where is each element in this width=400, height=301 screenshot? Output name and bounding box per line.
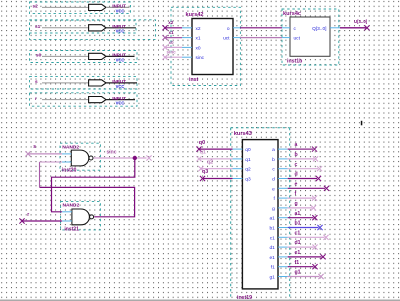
input pin s2 INPUT label — [112, 4, 126, 9]
input pin s selection box — [30, 77, 138, 89]
net label b1 — [295, 221, 301, 227]
svg-text:q3: q3 — [202, 169, 208, 175]
input pin s1 selection box — [30, 20, 137, 33]
svg-text:inst: inst — [189, 77, 198, 83]
svg-text:c1: c1 — [270, 235, 275, 241]
wire lead of input pin s — [42, 82, 89, 84]
svg-text:g: g — [272, 207, 275, 212]
pin g stub of kurs43 — [278, 207, 288, 209]
wire tail of input pin s0 — [106, 55, 135, 57]
gate NAND2 inst21 selection box — [61, 201, 101, 230]
pin Q stub of kurs4c — [330, 27, 340, 29]
pin x1 label of kurs42 — [196, 36, 201, 42]
net label q2 — [207, 159, 213, 165]
svg-text:x1: x1 — [169, 30, 175, 35]
pin d label of kurs43 — [272, 177, 275, 183]
svg-text:d1: d1 — [295, 240, 301, 246]
pin x2 stub of kurs42 — [182, 27, 192, 29]
input pin s0 INPUT label — [112, 53, 126, 58]
pin f1 label of kurs43 — [271, 265, 275, 271]
pin sinc stub of kurs42 — [182, 56, 192, 58]
input pin s0 VCC label — [116, 57, 125, 62]
wire r into inst21 — [22, 220, 62, 222]
svg-text:INPUT: INPUT — [112, 96, 126, 101]
input pin s name label — [35, 80, 38, 85]
wire f from kurs43 — [288, 197, 313, 199]
pin x0 stub of kurs42 — [182, 46, 192, 48]
svg-text:kurs4c: kurs4c — [283, 11, 301, 17]
gate NAND2 inst20 symbol — [71, 150, 93, 166]
wire a from kurs43 — [288, 148, 313, 150]
input pin s2 symbol — [89, 4, 106, 10]
svg-text:q1: q1 — [200, 150, 206, 156]
svg-text:x0: x0 — [169, 40, 175, 45]
svg-text:INPUT: INPUT — [112, 79, 126, 84]
svg-text:VCC: VCC — [116, 101, 125, 106]
input pin r INPUT label — [112, 96, 126, 101]
svg-text:x2: x2 — [196, 26, 201, 32]
svg-text:f: f — [295, 191, 297, 197]
svg-text:x1: x1 — [196, 36, 201, 42]
instance label inst20 — [62, 167, 77, 173]
pin b1 label of kurs43 — [269, 226, 275, 232]
svg-text:s: s — [35, 80, 38, 85]
node X terminal of wire s — [25, 151, 30, 156]
svg-text:e: e — [272, 187, 275, 192]
node X terminal of wire x0 — [162, 45, 167, 50]
pin c label of kurs43 — [272, 168, 275, 173]
svg-text:inst21: inst21 — [64, 227, 79, 233]
node X terminal of wire a1 — [312, 215, 317, 220]
pin q2 stub of kurs43 — [233, 168, 243, 170]
svg-text:r: r — [27, 212, 29, 218]
svg-text:c1: c1 — [295, 230, 301, 236]
net label q0 — [199, 140, 205, 146]
svg-text:f1: f1 — [295, 260, 300, 266]
component kurs43 U3 selection box — [231, 128, 290, 301]
node X terminal of wire q1 — [196, 156, 201, 161]
svg-text:VCC: VCC — [116, 57, 125, 62]
svg-text:g1: g1 — [269, 275, 275, 281]
pin a1 label of kurs43 — [269, 216, 275, 222]
node X terminal of wire f1 — [312, 264, 317, 269]
svg-text:inst1b: inst1b — [287, 58, 302, 64]
svg-text:d1: d1 — [269, 245, 275, 251]
pin x2 label of kurs42 — [196, 26, 201, 32]
node X terminal of wire q0 — [196, 147, 201, 152]
pin b1 stub of kurs43 — [278, 227, 288, 229]
pin g1 label of kurs43 — [269, 275, 275, 281]
pin e1 stub of kurs43 — [278, 256, 288, 258]
net label a — [295, 142, 298, 148]
pin a label of kurs43 — [272, 148, 275, 153]
net label f1 — [295, 260, 300, 266]
pin e label of kurs43 — [272, 187, 275, 192]
svg-text:s: s — [33, 144, 36, 150]
wire d from kurs43 — [288, 178, 317, 180]
wire feedback Q to inst21 input1 — [52, 158, 135, 212]
pin c1 label of kurs43 — [270, 235, 275, 241]
pin g label of kurs43 — [272, 207, 275, 212]
pin c stub of kurs4c — [282, 27, 290, 29]
instance label inst1b of kurs4c — [287, 58, 302, 64]
svg-text:VCC: VCC — [116, 8, 125, 13]
pin f stub of kurs43 — [278, 197, 288, 199]
net selection box around s1 — [30, 20, 156, 40]
wire a1 from kurs43 — [288, 217, 314, 219]
svg-text:q0: q0 — [199, 140, 205, 146]
instance label inst19 — [237, 295, 252, 301]
wire b1 from kurs43 — [288, 227, 319, 229]
wire tail of input pin r — [106, 99, 135, 101]
component kurs4c U2 body — [290, 17, 330, 56]
node X terminal of wire e1 — [320, 254, 325, 259]
svg-text:U[3..0]: U[3..0] — [354, 19, 368, 24]
svg-text:a1: a1 — [269, 216, 275, 222]
svg-text:NAND2: NAND2 — [62, 144, 79, 150]
pin sinc label of kurs42 — [196, 55, 205, 61]
pin o label of kurs42 — [227, 27, 230, 32]
svg-text:d: d — [272, 177, 275, 183]
svg-text:q0: q0 — [245, 147, 251, 153]
window border bottom — [0, 300, 400, 301]
svg-text:e1: e1 — [295, 250, 301, 256]
node X terminal of wire b1 — [317, 225, 322, 230]
pin f1 stub of kurs43 — [278, 266, 288, 268]
wire sinc into kurs42 — [165, 56, 182, 58]
pin q0 label of kurs43 — [245, 147, 251, 153]
wire e from kurs43 — [288, 187, 325, 189]
svg-text:e1: e1 — [269, 255, 275, 261]
wire s into inst20 — [28, 153, 62, 155]
wire b from kurs43 — [288, 158, 314, 160]
pin stub input1 of inst20 — [62, 153, 71, 155]
pin q1 stub of kurs43 — [233, 158, 243, 160]
node X terminal of wire x2 — [162, 25, 167, 30]
svg-text:sinc: sinc — [196, 55, 205, 61]
svg-text:b: b — [272, 157, 275, 163]
pin uct label of kurs42 — [223, 36, 230, 42]
svg-text:uct: uct — [294, 36, 301, 42]
input pin s2 VCC label — [116, 8, 125, 13]
svg-text:INPUT: INPUT — [112, 24, 126, 29]
component kurs43 U3 title — [234, 131, 252, 137]
gate NAND2 inst20 selection box — [60, 143, 100, 170]
pin q1 label of kurs43 — [245, 157, 251, 163]
node X terminal of wire q2 — [198, 166, 203, 171]
svg-text:x0: x0 — [196, 45, 201, 51]
node text cursor tick — [361, 121, 363, 126]
svg-text:s0: s0 — [36, 53, 42, 59]
wire q2 into kurs43 — [201, 168, 233, 170]
svg-text:s2: s2 — [33, 4, 39, 10]
pin d stub of kurs43 — [278, 178, 288, 180]
pin a1 stub of kurs43 — [278, 217, 288, 219]
pin q3 label of kurs43 — [245, 177, 251, 183]
svg-text:q2: q2 — [245, 167, 251, 173]
pin c1 stub of kurs43 — [278, 236, 288, 238]
svg-text:e: e — [295, 181, 298, 187]
wire c1 from kurs43 — [288, 236, 325, 238]
input pin s1 name label — [35, 24, 41, 30]
pin c label of kurs4c — [294, 27, 297, 32]
input pin r selection box — [30, 93, 138, 106]
net label f — [295, 191, 297, 197]
node X terminal of wire c1 — [323, 235, 328, 240]
net label sinc — [107, 149, 117, 155]
svg-text:q3: q3 — [245, 177, 251, 183]
input pin s1 VCC label — [116, 29, 125, 34]
wire x0 into kurs42 — [165, 46, 182, 48]
pin g1 stub of kurs43 — [278, 276, 288, 278]
net label x1 — [169, 30, 175, 35]
svg-text:Q[3..0]: Q[3..0] — [312, 26, 326, 32]
svg-text:a: a — [272, 148, 275, 153]
wire uct (kurs42 to kurs4c) — [240, 37, 282, 39]
wire x2 into kurs42 — [165, 27, 182, 29]
wire lead of input pin s1 — [42, 27, 89, 29]
node X terminal of wire q3 — [200, 176, 205, 181]
node X terminal of wire sinc — [162, 55, 167, 60]
svg-text:INPUT: INPUT — [112, 4, 126, 9]
svg-text:q2: q2 — [207, 159, 213, 165]
node X terminal of wire d1 — [312, 245, 317, 250]
wire tail of input pin s — [106, 82, 137, 84]
svg-text:f1: f1 — [271, 265, 275, 271]
component kurs43 U3 body — [242, 140, 278, 289]
wire g1 from kurs43 — [288, 276, 320, 278]
pin q0 stub of kurs43 — [233, 148, 243, 150]
wire o (kurs42 to kurs4c) — [240, 27, 282, 29]
pin d1 stub of kurs43 — [278, 246, 288, 248]
pin stub input1 of inst21 — [62, 211, 72, 213]
node X terminal of wire a — [312, 147, 317, 152]
net label c1 — [295, 230, 301, 236]
net label e — [295, 181, 298, 187]
svg-text:a1: a1 — [295, 211, 301, 217]
pin stub input2 of inst20 — [62, 161, 71, 163]
gate NAND2 inst21 symbol — [72, 209, 94, 225]
input pin s2 selection box — [30, 2, 131, 14]
component kurs42 U1 title — [186, 12, 204, 18]
svg-text:sinc: sinc — [107, 149, 117, 155]
svg-text:x2: x2 — [168, 20, 174, 25]
wire tail of input pin s2 — [106, 6, 130, 8]
svg-text:q1: q1 — [245, 157, 251, 163]
input pin s0 selection box — [30, 51, 138, 63]
svg-text:c: c — [295, 162, 298, 168]
pin a stub of kurs43 — [278, 148, 288, 150]
net label U[3..0] — [354, 19, 368, 24]
input pin s0 name label — [36, 53, 42, 59]
node X terminal of wire g — [311, 205, 316, 210]
net label b — [295, 152, 298, 158]
pin f label of kurs43 — [273, 196, 275, 202]
net label e1 — [295, 250, 301, 256]
node junction on sinc — [133, 156, 137, 160]
pin x1 stub of kurs42 — [182, 37, 192, 39]
net label x2 — [168, 20, 174, 25]
wire g from kurs43 — [288, 207, 312, 209]
wire f1 from kurs43 — [288, 266, 314, 268]
input pin r VCC label — [116, 101, 125, 106]
svg-text:o: o — [227, 27, 230, 32]
net label d1 — [295, 240, 301, 246]
instance label inst21 — [64, 227, 79, 233]
pin b label of kurs43 — [272, 157, 275, 163]
node X terminal of wire d — [316, 176, 321, 181]
pin c stub of kurs43 — [278, 168, 288, 170]
net label d — [295, 172, 298, 178]
node X terminal of wire sinc — [146, 155, 151, 160]
gate NAND2 inst21 type label — [63, 202, 80, 208]
svg-text:VCC: VCC — [116, 29, 125, 34]
pin q3 stub of kurs43 — [233, 178, 243, 180]
wire U[3..0] output — [340, 27, 366, 29]
svg-text:g1: g1 — [295, 270, 301, 276]
input pin r name label — [35, 96, 37, 102]
node X terminal of wire r — [19, 218, 24, 223]
input pin s0 symbol — [89, 53, 106, 59]
pin Q[3..0] label of kurs4c — [312, 26, 326, 32]
input pin s1 INPUT label — [112, 24, 126, 29]
svg-text:sinc: sinc — [167, 50, 177, 55]
wire q1 into kurs43 — [199, 158, 233, 160]
svg-text:s1: s1 — [35, 24, 41, 30]
net label a1 — [295, 211, 301, 217]
net label s — [33, 144, 36, 150]
svg-text:uct: uct — [223, 36, 230, 42]
net label g — [295, 201, 298, 207]
pin e stub of kurs43 — [278, 187, 288, 189]
wire e1 from kurs43 — [288, 256, 322, 258]
net label q1 — [200, 150, 206, 156]
net label r — [27, 212, 29, 218]
svg-text:r: r — [35, 96, 37, 102]
instance label inst of kurs42 — [189, 77, 198, 83]
pin e1 label of kurs43 — [269, 255, 275, 261]
node X terminal of wire U[3..0] — [364, 25, 369, 30]
pin q2 label of kurs43 — [245, 167, 251, 173]
svg-text:INPUT: INPUT — [112, 53, 126, 58]
svg-text:a: a — [295, 142, 298, 148]
net label sinc — [167, 50, 177, 55]
svg-text:VCC: VCC — [116, 84, 125, 89]
component kurs42 U1 selection box — [171, 7, 240, 85]
svg-text:d: d — [295, 172, 298, 178]
wire lead of input pin r — [42, 99, 89, 101]
net label g1 — [295, 270, 301, 276]
component kurs4c U2 selection box — [282, 9, 339, 65]
component kurs42 U1 body — [192, 19, 233, 75]
svg-text:kurs43: kurs43 — [234, 131, 252, 137]
wire q3 into kurs43 — [203, 178, 233, 180]
net label q3 — [202, 169, 208, 175]
wire tail of input pin s1 — [106, 27, 136, 29]
wire d1 from kurs43 — [288, 246, 314, 248]
pin b stub of kurs43 — [278, 158, 288, 160]
wire lead of input pin s0 — [42, 55, 89, 57]
pin x0 label of kurs42 — [196, 45, 201, 51]
net label x0 — [169, 40, 175, 45]
pin stub input2 of inst21 — [62, 220, 72, 222]
pin d1 label of kurs43 — [269, 245, 275, 251]
pin uct stub of kurs42 — [233, 37, 240, 39]
svg-text:b1: b1 — [295, 221, 301, 227]
input pin s INPUT label — [112, 79, 126, 84]
wire q0 into kurs43 — [199, 148, 233, 150]
wire lead of input pin s2 — [42, 6, 89, 8]
node X terminal of wire e — [324, 186, 329, 191]
pin uct label of kurs4c — [294, 36, 301, 42]
wire c from kurs43 — [288, 168, 318, 170]
node X terminal of wire g1 — [318, 274, 323, 279]
wire feedback Qbar to inst20 input2 — [40, 162, 135, 217]
svg-text:kurs42: kurs42 — [186, 12, 204, 18]
pin uct stub of kurs4c — [282, 37, 290, 39]
input pin s1 symbol — [89, 25, 106, 31]
pin o stub of kurs42 — [233, 27, 240, 29]
node X terminal of wire f — [312, 196, 317, 201]
input pin s2 name label — [33, 4, 39, 10]
input pin s symbol — [89, 80, 106, 86]
node X terminal of wire c — [317, 166, 322, 171]
wire x1 into kurs42 — [165, 37, 182, 39]
component kurs4c U2 title — [283, 11, 301, 17]
svg-text:b1: b1 — [269, 226, 275, 232]
svg-text:b: b — [295, 152, 298, 158]
svg-text:g: g — [295, 201, 298, 207]
input pin s VCC label — [116, 84, 125, 89]
input pin r symbol — [89, 97, 106, 103]
gate NAND2 inst20 type label — [62, 144, 79, 150]
net label c — [295, 162, 298, 168]
node X terminal of wire b — [313, 156, 318, 161]
wire sinc from inst20 output — [93, 157, 146, 159]
node X terminal of wire x1 — [162, 35, 167, 40]
svg-text:NAND2: NAND2 — [63, 202, 80, 208]
svg-text:inst20: inst20 — [62, 167, 77, 173]
